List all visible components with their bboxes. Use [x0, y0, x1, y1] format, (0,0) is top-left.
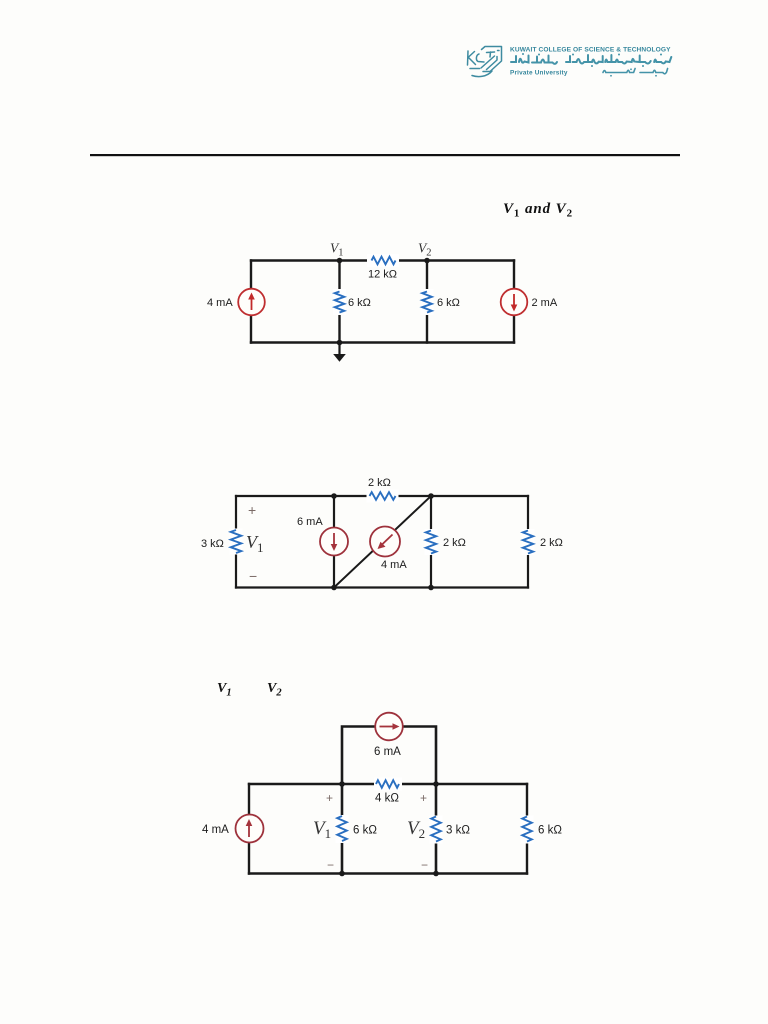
resistor 12 kOhm horizontal: [367, 254, 399, 281]
logo icon hand outline right: [482, 47, 502, 72]
wire top right segment: [398, 259, 514, 261]
wire right branch: [513, 261, 515, 343]
svg-text:V2: V2: [418, 241, 432, 259]
svg-text:+: +: [326, 791, 333, 805]
current source 6 mA c2: [297, 516, 348, 556]
svg-text:+: +: [248, 502, 256, 518]
wire bottom c3: [249, 872, 527, 874]
svg-text:3 kΩ: 3 kΩ: [446, 825, 470, 837]
svg-text:6 kΩ: 6 kΩ: [348, 297, 371, 309]
resistor 6 kOhm right c3: [521, 816, 563, 844]
svg-text:6 kΩ: 6 kΩ: [538, 825, 562, 837]
svg-text:V1: V1: [217, 681, 232, 699]
wire V2 branch: [426, 261, 428, 343]
resistor 6 kOhm on V1 branch: [333, 289, 371, 315]
node V1 dot: [337, 258, 343, 264]
ground symbol: [333, 343, 346, 362]
svg-text:2 kΩ: 2 kΩ: [443, 537, 466, 549]
node V1 top dot c3: [339, 781, 345, 787]
wire upper loop c3: [342, 727, 436, 785]
node V2 bottom dot c3: [433, 871, 439, 877]
wire V1 branch c3: [341, 784, 344, 874]
svg-text:V1: V1: [313, 818, 331, 841]
current source 4 mA diagonal c2: [370, 527, 407, 572]
logo icon C script stroke: [476, 54, 484, 62]
node bottom 2k dot c2: [428, 585, 434, 591]
wire top left segment c2: [236, 495, 368, 497]
node V2 top dot c3: [433, 781, 439, 787]
logo icon T glyph: [487, 52, 495, 57]
wire bottom: [251, 341, 514, 343]
wire right branch c2: [527, 496, 529, 588]
V1 label with plus minus c2: [246, 502, 264, 584]
resistor 2 kOhm top c2: [367, 477, 399, 503]
svg-text:−: −: [249, 568, 257, 584]
svg-text:−: −: [327, 858, 334, 872]
node V1 bottom dot c3: [339, 871, 345, 877]
resistor 2 kOhm right c2: [522, 529, 563, 555]
svg-text:Private University: Private University: [510, 70, 568, 77]
resistor 3 kOhm V2 branch c3: [430, 816, 471, 844]
svg-text:+: +: [420, 791, 427, 805]
svg-text:2 kΩ: 2 kΩ: [368, 477, 391, 489]
svg-text:V1: V1: [246, 532, 264, 555]
svg-text:2 kΩ: 2 kΩ: [540, 537, 563, 549]
svg-text:4 mA: 4 mA: [207, 297, 233, 309]
wire top left segment: [251, 259, 368, 261]
wire left branch: [250, 261, 252, 343]
resistor 4 kOhm c3: [374, 778, 402, 805]
svg-text:V1 and V2: V1 and V2: [503, 201, 573, 220]
svg-text:−: −: [421, 858, 428, 872]
svg-text:KUWAIT COLLEGE OF SCIENCE & TE: KUWAIT COLLEGE OF SCIENCE & TECHNOLOGY: [510, 47, 671, 54]
svg-text:V2: V2: [267, 681, 282, 699]
node top middle dot c2: [331, 493, 337, 499]
svg-text:4 mA: 4 mA: [202, 824, 229, 836]
svg-text:6 mA: 6 mA: [297, 516, 323, 528]
wire left branch c3: [248, 784, 250, 874]
resistor 3 kOhm left c2: [201, 529, 243, 555]
logo icon dot: [498, 50, 500, 52]
resistor 6 kOhm on V2 branch: [421, 289, 460, 315]
current source 6 mA top c3: [374, 713, 403, 758]
logo arabic dots: [522, 53, 524, 55]
current source 2 mA right: [501, 289, 558, 316]
wire V1 branch: [338, 261, 340, 343]
svg-text:4 kΩ: 4 kΩ: [375, 793, 399, 805]
logo arabic name line: [511, 55, 671, 64]
logo icon S diagonal swoosh: [470, 56, 495, 69]
logo icon bottom swoosh: [472, 71, 492, 77]
logo icon K stroke: [468, 51, 476, 65]
wire 2k branch c2: [430, 496, 432, 588]
svg-text:6 mA: 6 mA: [374, 746, 401, 758]
resistor 6 kOhm V1 branch c3: [336, 815, 378, 843]
svg-text:3 kΩ: 3 kΩ: [201, 538, 224, 550]
node bottom junction dot: [337, 340, 343, 346]
node V2 dot: [424, 258, 430, 264]
wire bottom c2: [236, 586, 528, 588]
wire top right segment c2: [398, 495, 529, 497]
svg-text:2 mA: 2 mA: [532, 297, 558, 309]
svg-text:V1: V1: [330, 241, 344, 259]
current source 4 mA left c3: [202, 815, 264, 843]
svg-text:12 kΩ: 12 kΩ: [368, 269, 397, 281]
wire left branch c2: [235, 496, 237, 588]
resistor 2 kOhm middle c2: [425, 529, 466, 555]
wire diagonal c2: [334, 496, 431, 588]
node bottom middle dot c2: [331, 585, 337, 591]
wire middle branch c2: [333, 496, 335, 588]
wire main top right segment c3: [401, 783, 527, 785]
V1 label with plus minus c3: [313, 791, 334, 872]
wire main top c3: [249, 783, 375, 785]
logo icon inner fold: [487, 57, 498, 70]
node top right junction dot c2: [428, 493, 434, 499]
current source 4 mA left: [207, 289, 265, 316]
wire right branch c3: [526, 784, 528, 874]
svg-text:4 mA: 4 mA: [381, 559, 407, 571]
wire V2 branch c3: [435, 784, 438, 874]
V2 label with plus minus c3: [407, 791, 428, 872]
svg-text:V2: V2: [407, 818, 425, 841]
svg-text:6 kΩ: 6 kΩ: [353, 825, 377, 837]
logo arabic private university: [603, 69, 668, 74]
svg-text:6 kΩ: 6 kΩ: [437, 297, 460, 309]
